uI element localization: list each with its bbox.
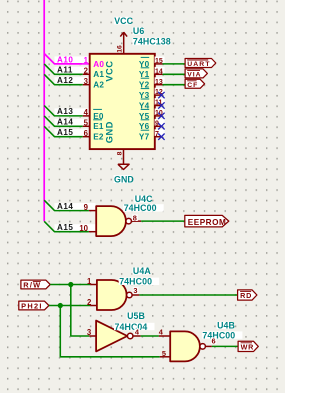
svg-text:10: 10 <box>79 224 88 233</box>
svg-text:VIA: VIA <box>187 71 201 78</box>
inverter U5B 74HC04 body <box>96 321 127 352</box>
U4C reference U4C <box>134 195 150 202</box>
pin 1 of U6 <box>83 63 90 65</box>
global label WR shape <box>238 341 258 351</box>
wire A14 to U6 <box>44 116 83 126</box>
svg-text:74HC04: 74HC04 <box>115 322 148 332</box>
pin 9 of U4C <box>89 210 96 212</box>
pin 9 of U6 <box>155 119 165 126</box>
svg-text:A15: A15 <box>57 223 73 232</box>
svg-text:GND: GND <box>114 175 134 185</box>
svg-text:15: 15 <box>155 58 163 65</box>
wire A13 to U6 <box>44 106 83 116</box>
svg-text:74HC00: 74HC00 <box>202 330 235 340</box>
svg-text:2: 2 <box>87 298 92 307</box>
pin 7 of U6 <box>155 129 165 136</box>
svg-text:A14: A14 <box>57 202 73 211</box>
label A10 <box>55 56 90 65</box>
svg-text:3: 3 <box>133 286 137 295</box>
label A13 <box>55 108 90 117</box>
svg-text:A1: A1 <box>93 70 104 79</box>
no-connect X on U6 pin 12 <box>158 92 164 98</box>
pin 11 of U6 <box>155 98 165 105</box>
label A15 <box>55 129 90 138</box>
U5B value 74HC04 <box>114 323 155 330</box>
pin 13 of U6 <box>155 77 165 84</box>
U4B reference U4B <box>217 322 234 329</box>
svg-text:A10: A10 <box>57 55 73 64</box>
svg-text:1: 1 <box>87 277 92 286</box>
junction on PH2I net <box>58 303 63 308</box>
wire U6 Y0 to UART <box>163 63 186 65</box>
pin 1 of U4A <box>90 284 97 286</box>
svg-text:UART: UART <box>187 61 210 68</box>
NAND gate U4B 74HC00 body <box>170 331 200 361</box>
label A14 <box>55 119 90 128</box>
svg-text:EEPROM: EEPROM <box>188 218 227 227</box>
pin 3 of U4A <box>132 294 139 296</box>
svg-text:2: 2 <box>84 67 89 76</box>
wire A14 to U4C pin 9 <box>44 200 89 210</box>
wire A10 to U6 pin 1 <box>44 54 83 64</box>
svg-text:Y7: Y7 <box>139 133 150 142</box>
U4C value 74HC00 <box>123 204 164 211</box>
pin 4 of U6 <box>83 115 90 117</box>
svg-text:A2: A2 <box>93 81 104 90</box>
pin 2 of U6 <box>83 73 90 75</box>
pin 3 of U5B <box>89 335 96 337</box>
label A15 (U4C) <box>55 224 96 233</box>
pin 4 of U4B <box>159 335 170 337</box>
svg-text:4: 4 <box>84 108 89 117</box>
global label VIA shape <box>185 69 207 78</box>
svg-text:74HC00: 74HC00 <box>124 203 157 213</box>
svg-text:CF: CF <box>187 82 198 89</box>
pin 3 of U6 <box>83 84 90 86</box>
U5B output bubble <box>127 333 133 339</box>
svg-text:U6: U6 <box>133 26 144 36</box>
U4A value 74HC00 <box>119 278 160 285</box>
wire R/W branch to U5B input <box>71 285 90 337</box>
svg-text:74HC138: 74HC138 <box>133 37 171 47</box>
svg-text:A0: A0 <box>93 60 104 69</box>
junction on R/W net <box>68 282 73 287</box>
svg-text:U5B: U5B <box>127 311 145 321</box>
pin 10 of U4C <box>89 231 96 233</box>
svg-text:9: 9 <box>84 203 89 212</box>
svg-text:6: 6 <box>212 336 216 345</box>
svg-text:RD: RD <box>240 291 252 300</box>
wire PH2I to U4A pin 2 <box>49 305 90 307</box>
svg-text:5: 5 <box>162 349 166 358</box>
svg-text:8: 8 <box>116 151 123 155</box>
global label RD shape <box>238 290 257 300</box>
pin 5 of U6 <box>83 125 90 127</box>
label A14 (U4C) <box>55 203 96 212</box>
svg-text:WR: WR <box>241 343 254 352</box>
pin 15 of U6 <box>155 57 165 64</box>
svg-text:3: 3 <box>87 328 92 337</box>
U6 reference U6 <box>132 27 144 34</box>
global label PH2I shape <box>19 301 49 310</box>
wire R/W to U4A pin 1 <box>50 284 90 286</box>
pin 10 of U6 <box>155 109 165 116</box>
global label UART shape <box>185 59 216 68</box>
svg-text:8: 8 <box>133 214 137 223</box>
wire U5B output to U4B pin 4 <box>141 335 159 337</box>
svg-text:16: 16 <box>117 45 124 53</box>
wire A15 to U4C pin 10 <box>44 221 89 231</box>
pin 12 of U6 <box>155 88 165 95</box>
svg-text:1: 1 <box>84 56 89 65</box>
IC U6 74HC138 body <box>90 54 155 149</box>
wire U4C output to EEPROM <box>141 220 185 222</box>
pin 5 of U4B <box>160 356 170 358</box>
pin 14 of U6 <box>155 67 165 74</box>
svg-text:A14: A14 <box>57 118 73 127</box>
svg-text:E2: E2 <box>93 133 104 142</box>
NAND gate U4A 74HC00 body <box>97 280 127 310</box>
global label EEPROM shape <box>185 215 229 227</box>
svg-text:A13: A13 <box>57 107 73 116</box>
wire A11 to U6 <box>44 64 83 74</box>
svg-text:GND: GND <box>105 121 115 143</box>
wire U6 Y2 to CF <box>163 84 186 86</box>
global label R/W shape <box>21 280 50 289</box>
label A12 <box>55 77 90 86</box>
svg-text:6: 6 <box>84 129 89 138</box>
svg-text:A11: A11 <box>57 66 73 75</box>
wire U4B output to WR <box>212 345 238 347</box>
svg-text:74HC00: 74HC00 <box>119 277 152 287</box>
svg-text:U4A: U4A <box>133 266 151 276</box>
U4B value 74HC00 <box>202 331 243 338</box>
svg-text:E1: E1 <box>93 122 104 131</box>
svg-text:A12: A12 <box>57 76 73 85</box>
svg-text:13: 13 <box>155 79 163 86</box>
U5B reference U5B <box>127 312 143 319</box>
svg-text:U4B: U4B <box>217 320 235 330</box>
svg-text:A15: A15 <box>57 128 73 137</box>
no-connect X on U6 pin 9 <box>158 123 164 129</box>
no-connect X on U6 pin 11 <box>158 102 164 108</box>
U6 value 74HC138 <box>132 38 170 45</box>
global label CF shape <box>185 79 205 88</box>
power symbol GND <box>123 149 125 164</box>
wire A15 to U6 <box>44 126 83 136</box>
pin 2 of U4A <box>90 305 97 307</box>
svg-text:PH2I: PH2I <box>21 301 43 310</box>
pin 4 of U5B <box>133 335 141 337</box>
pin 8 of U4C <box>131 220 141 222</box>
pin 6 of U4B <box>205 345 211 347</box>
svg-text:14: 14 <box>155 68 163 75</box>
label A11 <box>55 67 90 76</box>
wire A12 to U6 <box>44 74 83 84</box>
svg-text:VCC: VCC <box>114 16 133 26</box>
svg-text:VCC: VCC <box>105 60 115 81</box>
wire U4A output to RD <box>139 294 237 296</box>
no-connect X on U6 pin 10 <box>158 113 164 119</box>
svg-text:5: 5 <box>84 119 89 128</box>
overline W of R/W <box>33 281 41 283</box>
no-connect X on U6 pin 7 <box>158 134 164 140</box>
U4A reference U4A <box>132 267 149 274</box>
pin 6 of U6 <box>83 136 90 138</box>
svg-text:3: 3 <box>84 77 89 86</box>
op-amp style NAND gate U4C 74HC00 body <box>96 206 126 236</box>
wire U6 Y1 to VIA <box>163 73 186 75</box>
wire PH2I branch to U4B pin 5 <box>60 306 160 357</box>
power symbol VCC <box>123 32 125 54</box>
wire highlighted net A10 vertical <box>43 0 45 221</box>
